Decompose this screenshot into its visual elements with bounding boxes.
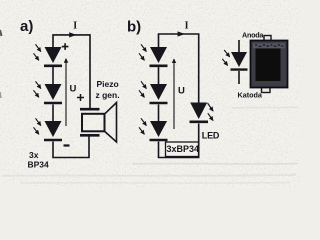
legend light arrows — [224, 50, 229, 57]
LED D4 — [190, 103, 207, 120]
piezo horn — [105, 103, 117, 143]
scan artifact left edge — [0, 30, 2, 36]
svg-text:Anoda: Anoda — [242, 30, 264, 39]
svg-text:b): b) — [127, 19, 141, 36]
photodiode D2b — [150, 84, 167, 100]
svg-text:z gen.: z gen. — [96, 90, 120, 100]
photodiode D2a — [45, 84, 62, 100]
package BP34 top lead — [264, 36, 271, 42]
legend photodiode cathode wire — [238, 71, 240, 84]
package BP34 body — [251, 41, 288, 88]
light arrows D2a — [36, 81, 41, 88]
svg-text:a): a) — [20, 18, 33, 35]
svg-text:U: U — [178, 85, 185, 96]
svg-text:I: I — [73, 21, 77, 32]
background paper — [0, 0, 300, 188]
package BP34 bottom lead — [262, 87, 271, 93]
svg-text:LED: LED — [202, 131, 220, 141]
svg-text:I: I — [185, 21, 189, 32]
legend photodiode — [231, 52, 247, 67]
voltage arrow U (a) — [65, 59, 67, 126]
wire bottom of loop b — [159, 124, 199, 158]
box around 3xBP34 label — [166, 142, 199, 157]
photodiode D3a — [45, 121, 62, 137]
piezo plus sign — [77, 94, 84, 101]
package chip window — [256, 49, 281, 82]
svg-text:U: U — [70, 84, 77, 95]
light arrows D3b — [141, 118, 146, 125]
photodiode D1b — [150, 47, 167, 63]
wire D2b-D3b — [158, 105, 160, 122]
package marking band — [253, 43, 285, 48]
plus sign top (a) — [62, 43, 69, 50]
photodiode D1a — [45, 47, 62, 63]
svg-text:3xBP34: 3xBP34 — [167, 144, 200, 154]
light arrows D2b — [141, 81, 146, 88]
wire D1b-D2b — [158, 67, 160, 84]
svg-text:3x: 3x — [29, 150, 39, 160]
LED emission arrows — [208, 103, 214, 111]
light arrows D3a — [36, 118, 41, 125]
light arrows D1b — [141, 44, 146, 51]
wire top of loop a — [53, 35, 90, 108]
legend photodiode anode wire — [238, 40, 240, 52]
wire bottom of loop a — [53, 137, 89, 158]
svg-text:BP34: BP34 — [28, 160, 50, 170]
minus sign bottom (a) — [64, 144, 70, 146]
photodiode D3b — [150, 121, 167, 137]
wire D2a-D3a — [52, 105, 54, 122]
light arrows D1a — [36, 44, 41, 51]
scan streaks bottom — [2, 107, 298, 183]
piezo body — [82, 114, 105, 132]
piezo top plate — [80, 108, 100, 111]
current arrow I (b) — [178, 31, 185, 36]
voltage arrow U (b) — [173, 59, 175, 129]
wire top of loop b — [159, 34, 199, 103]
svg-text:Piezo: Piezo — [97, 79, 119, 89]
piezo bottom plate — [80, 134, 100, 137]
current arrow I (a) — [69, 32, 76, 37]
svg-text:Katoda: Katoda — [238, 91, 263, 100]
wire D1a-D2a — [52, 67, 54, 84]
